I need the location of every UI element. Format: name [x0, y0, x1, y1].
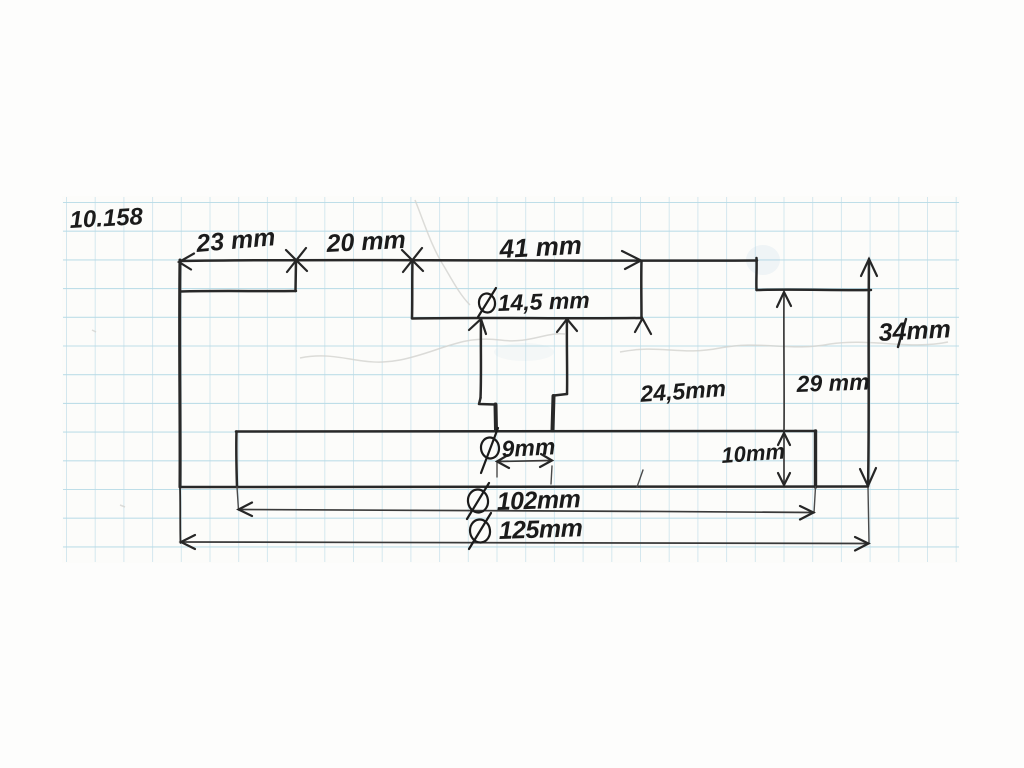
svg-text:125mm: 125mm	[498, 514, 583, 545]
svg-text:9mm: 9mm	[501, 433, 556, 462]
svg-text:34mm: 34mm	[878, 315, 952, 347]
svg-text:20 mm: 20 mm	[325, 226, 407, 258]
svg-text:10.158: 10.158	[69, 203, 144, 234]
svg-text:41 mm: 41 mm	[498, 230, 583, 264]
svg-text:10mm: 10mm	[721, 439, 786, 468]
svg-text:102mm: 102mm	[496, 485, 581, 516]
svg-text:14,5 mm: 14,5 mm	[497, 287, 590, 316]
svg-text:29 mm: 29 mm	[795, 368, 870, 397]
